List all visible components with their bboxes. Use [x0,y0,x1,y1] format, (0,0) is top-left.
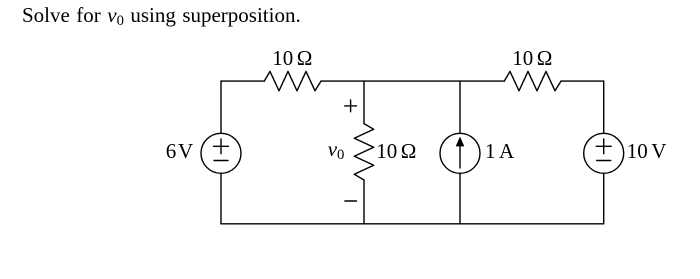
wire left branch lower [220,173,222,224]
V1 plus sign [214,139,229,154]
wire v0 branch lower [363,180,365,224]
wire current source branch upper [459,81,461,133]
V1 minus sign [214,160,228,162]
svg-text:1 A: 1 A [485,139,515,163]
resistor R2 10ohm top-right zigzag [504,71,561,90]
I1 arrow head [456,137,465,147]
I1 arrow shaft [459,146,461,169]
v0 polarity plus sign [345,100,357,112]
voltage source V1 6V circle [201,133,241,173]
wire current source branch lower [459,173,461,224]
wire v0 branch upper [363,81,365,124]
svg-text:10 Ω: 10 Ω [512,46,552,70]
wire top left [221,80,264,82]
svg-text:Solve for v0 using superpositi: Solve for v0 using superposition. [22,3,301,29]
svg-text:10 V: 10 V [627,139,667,163]
voltage source V2 10V circle [584,133,624,173]
wire right branch lower [603,173,605,224]
wire bottom [221,223,604,225]
resistor R3 10ohm vertical zigzag [354,124,373,180]
wire top middle [321,80,504,82]
V2 plus sign [596,139,611,154]
svg-text:10 Ω: 10 Ω [272,46,312,70]
resistor R1 10ohm top-left zigzag [264,71,321,90]
svg-text:6 V: 6 V [166,139,193,163]
svg-text:10 Ω: 10 Ω [376,139,416,163]
V2 minus sign [597,160,611,162]
v0 polarity minus sign [345,200,357,202]
wire left branch upper [220,81,222,133]
current source I1 1A circle [440,133,480,173]
wire top right [561,80,604,82]
svg-text:v0: v0 [328,137,345,163]
wire right branch upper [603,81,605,133]
